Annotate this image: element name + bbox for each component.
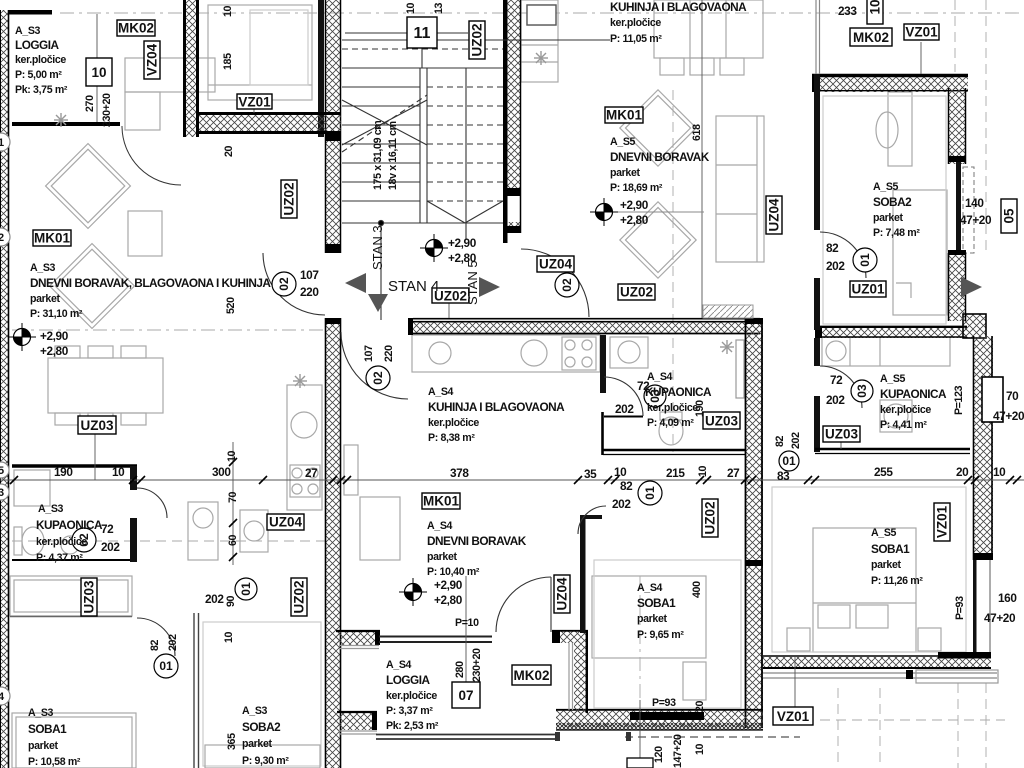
- svg-text:20: 20: [956, 465, 969, 479]
- svg-text:MK02: MK02: [513, 668, 549, 683]
- svg-text:ker.pločice: ker.pločice: [36, 536, 87, 548]
- svg-text:10: 10: [222, 5, 234, 17]
- svg-text:120: 120: [653, 746, 665, 763]
- svg-text:01: 01: [782, 454, 796, 468]
- svg-text:UZ04: UZ04: [539, 257, 573, 272]
- svg-text:35: 35: [584, 467, 597, 481]
- svg-text:UZ04: UZ04: [269, 515, 303, 530]
- svg-text:520: 520: [225, 297, 237, 314]
- svg-text:P: 4,37 m²: P: 4,37 m²: [36, 552, 83, 564]
- svg-text:UZ02: UZ02: [703, 501, 718, 534]
- svg-text:202: 202: [826, 259, 845, 273]
- svg-text:+2,90: +2,90: [448, 236, 477, 250]
- svg-text:LOGGIA: LOGGIA: [386, 673, 431, 687]
- svg-text:202: 202: [615, 402, 634, 416]
- svg-text:20: 20: [694, 700, 706, 712]
- svg-text:5: 5: [0, 465, 4, 477]
- svg-text:215: 215: [666, 466, 685, 480]
- svg-text:A_S5: A_S5: [880, 373, 906, 385]
- svg-text:STAN 5: STAN 5: [465, 260, 480, 305]
- svg-text:107: 107: [300, 268, 319, 282]
- svg-text:A_S5: A_S5: [873, 181, 899, 193]
- svg-text:1: 1: [0, 137, 4, 149]
- svg-text:Pk: 3,75 m²: Pk: 3,75 m²: [15, 84, 68, 96]
- svg-text:10: 10: [405, 2, 417, 14]
- svg-text:parket: parket: [873, 212, 904, 224]
- svg-text:05: 05: [1002, 208, 1017, 224]
- svg-text:SOBA1: SOBA1: [871, 542, 910, 556]
- svg-text:DNEVNI BORAVAK: DNEVNI BORAVAK: [427, 534, 527, 548]
- svg-text:18v x 16,11 cm: 18v x 16,11 cm: [387, 121, 399, 190]
- svg-text:P: 9,30 m²: P: 9,30 m²: [242, 755, 289, 767]
- svg-text:DNEVNI BORAVAK, BLAGOVAONA I K: DNEVNI BORAVAK, BLAGOVAONA I KUHINJA: [30, 276, 271, 290]
- svg-text:parket: parket: [427, 551, 458, 563]
- svg-text:KUHINJA I BLAGOVAONA: KUHINJA I BLAGOVAONA: [428, 400, 565, 414]
- svg-text:KUPAONICA: KUPAONICA: [36, 518, 103, 532]
- svg-text:10: 10: [697, 465, 709, 477]
- svg-text:UZ01: UZ01: [851, 282, 885, 297]
- svg-text:107: 107: [363, 345, 375, 362]
- svg-text:190: 190: [694, 400, 706, 417]
- svg-text:MK01: MK01: [34, 231, 71, 246]
- svg-text:STAN 3: STAN 3: [370, 225, 385, 270]
- svg-text:01: 01: [159, 659, 173, 673]
- svg-text:83: 83: [777, 469, 790, 483]
- svg-text:P=93: P=93: [954, 596, 966, 620]
- svg-text:P: 11,26 m²: P: 11,26 m²: [871, 575, 923, 587]
- svg-text:parket: parket: [30, 293, 61, 305]
- svg-text:parket: parket: [242, 738, 273, 750]
- svg-text:UZ04: UZ04: [555, 577, 570, 611]
- svg-text:VZ01: VZ01: [935, 505, 950, 538]
- svg-text:147+20: 147+20: [672, 734, 684, 768]
- svg-text:2: 2: [0, 232, 4, 244]
- svg-text:P: 3,37 m²: P: 3,37 m²: [386, 705, 433, 717]
- svg-text:618: 618: [691, 124, 703, 141]
- svg-text:KUHINJA I BLAGOVAONA: KUHINJA I BLAGOVAONA: [610, 0, 747, 14]
- svg-text:UZ02: UZ02: [620, 285, 653, 300]
- svg-text:SOBA1: SOBA1: [28, 722, 67, 736]
- svg-text:+2,80: +2,80: [434, 593, 463, 607]
- svg-text:10: 10: [226, 450, 238, 462]
- svg-text:280: 280: [454, 661, 466, 678]
- svg-text:A_S4: A_S4: [647, 371, 673, 383]
- svg-text:ker.pločice: ker.pločice: [428, 417, 479, 429]
- svg-text:UZ03: UZ03: [705, 414, 739, 429]
- svg-text:ker.pločice: ker.pločice: [610, 17, 661, 29]
- svg-text:parket: parket: [637, 613, 668, 625]
- svg-text:72: 72: [637, 379, 650, 393]
- svg-text:ker.pločice: ker.pločice: [386, 690, 437, 702]
- svg-text:ker.pločice: ker.pločice: [880, 404, 931, 416]
- svg-text:10: 10: [223, 631, 235, 643]
- svg-text:P: 11,05 m²: P: 11,05 m²: [610, 33, 662, 45]
- svg-text:82: 82: [620, 479, 633, 493]
- svg-text:LOGGIA: LOGGIA: [15, 38, 60, 52]
- svg-text:SOBA2: SOBA2: [873, 195, 912, 209]
- svg-text:MK01: MK01: [606, 108, 643, 123]
- svg-text:A_S3: A_S3: [15, 25, 41, 37]
- svg-text:27: 27: [305, 466, 318, 480]
- svg-text:02: 02: [560, 278, 574, 292]
- svg-text:47+20: 47+20: [993, 409, 1024, 423]
- svg-text:160: 160: [998, 591, 1017, 605]
- svg-text:10: 10: [868, 0, 883, 15]
- svg-text:MK02: MK02: [118, 21, 154, 36]
- svg-text:60: 60: [227, 534, 239, 546]
- svg-text:300: 300: [212, 465, 231, 479]
- svg-text:parket: parket: [610, 167, 641, 179]
- svg-text:255: 255: [874, 465, 893, 479]
- svg-text:A_S4: A_S4: [427, 520, 453, 532]
- svg-text:P: 10,40 m²: P: 10,40 m²: [427, 566, 480, 578]
- svg-text:72: 72: [830, 373, 843, 387]
- svg-text:ker.pločice: ker.pločice: [647, 402, 698, 414]
- svg-text:P: 10,58 m²: P: 10,58 m²: [28, 756, 81, 768]
- svg-text:A_S3: A_S3: [28, 707, 54, 719]
- svg-text:P: 8,38 m²: P: 8,38 m²: [428, 432, 475, 444]
- svg-text:+2,90: +2,90: [620, 198, 649, 212]
- svg-text:Pk: 2,53 m²: Pk: 2,53 m²: [386, 720, 439, 732]
- svg-text:175 x 31,09 cm: 175 x 31,09 cm: [372, 121, 384, 190]
- svg-text:P=123: P=123: [953, 385, 965, 415]
- svg-text:70: 70: [1006, 389, 1019, 403]
- svg-text:70: 70: [227, 491, 239, 503]
- svg-text:P: 4,41 m²: P: 4,41 m²: [880, 419, 927, 431]
- svg-text:parket: parket: [28, 740, 59, 752]
- svg-text:90: 90: [225, 595, 237, 607]
- svg-text:A_S3: A_S3: [30, 262, 56, 274]
- svg-text:+2,80: +2,80: [620, 213, 649, 227]
- svg-text:10: 10: [91, 65, 106, 80]
- svg-text:MK01: MK01: [423, 494, 460, 509]
- svg-text:20: 20: [223, 145, 235, 157]
- svg-text:27: 27: [727, 466, 740, 480]
- svg-text:P: 5,00 m²: P: 5,00 m²: [15, 69, 62, 81]
- svg-text:ker.pločice: ker.pločice: [15, 54, 66, 66]
- svg-text:47+20: 47+20: [960, 213, 992, 227]
- svg-text:02: 02: [277, 277, 291, 291]
- svg-text:A_S3: A_S3: [242, 705, 268, 717]
- svg-text:202: 202: [826, 393, 845, 407]
- svg-text:270: 270: [84, 95, 96, 112]
- svg-text:10: 10: [993, 465, 1006, 479]
- svg-text:P: 31,10 m²: P: 31,10 m²: [30, 308, 83, 320]
- svg-text:07: 07: [458, 688, 473, 703]
- svg-text:SOBA1: SOBA1: [637, 596, 676, 610]
- svg-text:KUPAONICA: KUPAONICA: [880, 387, 947, 401]
- svg-text:82: 82: [149, 639, 161, 651]
- svg-text:400: 400: [691, 581, 703, 598]
- svg-text:82: 82: [826, 241, 839, 255]
- svg-text:KUPAONICA: KUPAONICA: [645, 385, 712, 399]
- svg-text:MK02: MK02: [853, 30, 889, 45]
- svg-text:P: 4,09 m²: P: 4,09 m²: [647, 417, 694, 429]
- svg-text:202: 202: [790, 432, 802, 449]
- svg-text:01: 01: [858, 253, 872, 267]
- svg-text:VZ01: VZ01: [905, 25, 938, 40]
- svg-text:365: 365: [226, 733, 238, 750]
- svg-text:UZ02: UZ02: [470, 23, 485, 56]
- svg-text:230+20: 230+20: [471, 648, 483, 682]
- svg-text:140: 140: [965, 196, 984, 210]
- svg-text:+2,90: +2,90: [40, 329, 69, 343]
- svg-text:10: 10: [112, 465, 125, 479]
- svg-text:01: 01: [643, 486, 657, 500]
- svg-text:3: 3: [0, 487, 4, 499]
- svg-text:202: 202: [205, 592, 224, 606]
- svg-text:VZ01: VZ01: [238, 95, 271, 110]
- svg-text:A_S4: A_S4: [386, 659, 412, 671]
- svg-text:378: 378: [450, 466, 469, 480]
- svg-text:02: 02: [371, 371, 385, 385]
- svg-text:202: 202: [167, 634, 179, 651]
- svg-text:A_S3: A_S3: [38, 503, 64, 515]
- svg-text:STAN 4: STAN 4: [388, 278, 439, 295]
- svg-text:233: 233: [838, 4, 857, 18]
- svg-text:202: 202: [101, 540, 120, 554]
- svg-text:202: 202: [612, 497, 631, 511]
- svg-text:230+20: 230+20: [101, 93, 113, 127]
- svg-text:A_S4: A_S4: [637, 582, 663, 594]
- svg-text:10: 10: [614, 465, 627, 479]
- svg-text:P=10: P=10: [455, 617, 479, 629]
- svg-text:A_S5: A_S5: [871, 527, 897, 539]
- svg-text:82: 82: [774, 435, 786, 447]
- svg-text:+2,80: +2,80: [448, 251, 477, 265]
- svg-text:P: 18,69 m²: P: 18,69 m²: [610, 182, 663, 194]
- svg-text:parket: parket: [871, 559, 902, 571]
- svg-text:11: 11: [414, 25, 431, 42]
- svg-text:72: 72: [101, 522, 114, 536]
- svg-text:220: 220: [383, 345, 395, 362]
- svg-text:220: 220: [300, 285, 319, 299]
- svg-text:+2,90: +2,90: [434, 578, 463, 592]
- svg-text:10: 10: [694, 743, 706, 755]
- svg-text:P: 9,65 m²: P: 9,65 m²: [637, 629, 684, 641]
- svg-text:UZ04: UZ04: [767, 198, 782, 232]
- svg-text:P=93: P=93: [652, 697, 676, 709]
- svg-text:UZ03: UZ03: [80, 418, 114, 433]
- svg-text:UZ03: UZ03: [82, 580, 97, 614]
- svg-text:03: 03: [855, 384, 869, 398]
- svg-text:190: 190: [54, 465, 73, 479]
- svg-text:SOBA2: SOBA2: [242, 720, 281, 734]
- svg-text:P: 7,48 m²: P: 7,48 m²: [873, 227, 920, 239]
- svg-text:A_S4: A_S4: [428, 386, 454, 398]
- svg-text:13: 13: [433, 2, 445, 14]
- svg-text:VZ04: VZ04: [145, 43, 160, 76]
- svg-text:UZ03: UZ03: [825, 427, 859, 442]
- svg-text:A_S5: A_S5: [610, 136, 636, 148]
- svg-text:UZ02: UZ02: [282, 182, 297, 215]
- svg-text:UZ02: UZ02: [292, 580, 307, 613]
- svg-text:47+20: 47+20: [984, 611, 1016, 625]
- svg-text:01: 01: [239, 582, 253, 596]
- svg-text:185: 185: [222, 53, 234, 70]
- svg-text:DNEVNI BORAVAK: DNEVNI BORAVAK: [610, 150, 710, 164]
- svg-text:VZ01: VZ01: [777, 709, 810, 724]
- svg-text:+2,80: +2,80: [40, 344, 69, 358]
